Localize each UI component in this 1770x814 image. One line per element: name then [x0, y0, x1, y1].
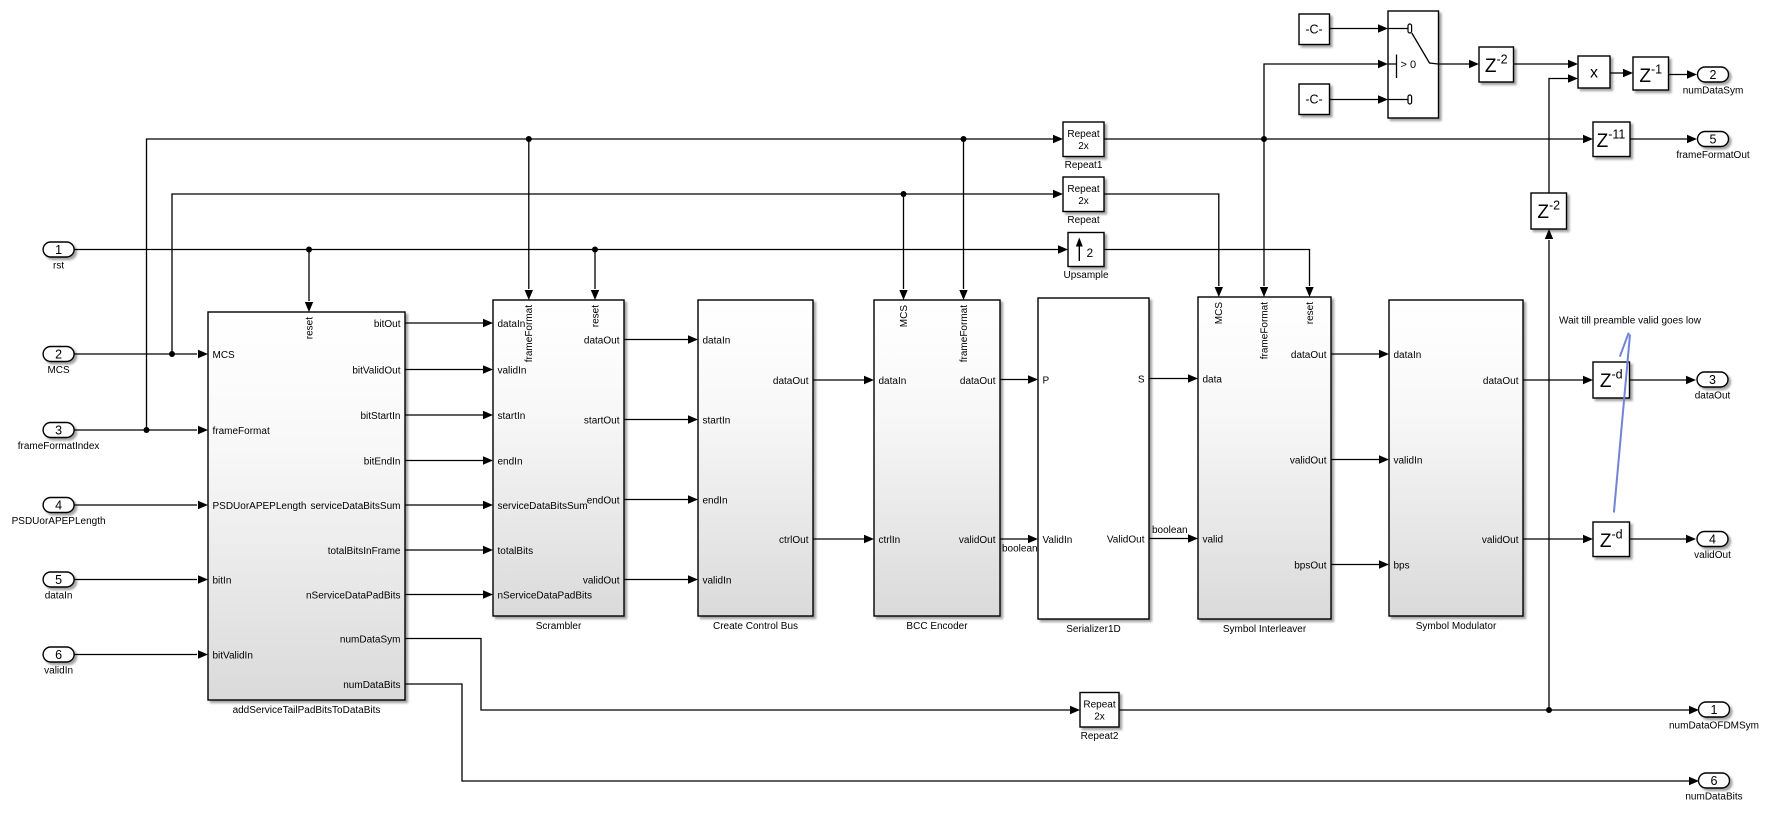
block Repeat — [1063, 177, 1104, 226]
outport 6 numDataBits — [1685, 773, 1742, 803]
svg-text:nServiceDataPadBits: nServiceDataPadBits — [306, 590, 401, 601]
svg-text:dataIn: dataIn — [1394, 350, 1422, 361]
svg-text:Wait till preamble valid goes: Wait till preamble valid goes low — [1559, 316, 1702, 327]
svg-text:Scrambler: Scrambler — [536, 621, 582, 632]
svg-text:MCS: MCS — [899, 305, 910, 328]
subsystem BCC Encoder — [874, 300, 1000, 632]
node numDataOFDMSym branch up to Delay Z-2 — [1546, 707, 1552, 713]
svg-text:dataOut: dataOut — [1483, 376, 1519, 387]
svg-text:bpsOut: bpsOut — [1294, 560, 1326, 571]
annotation: Wait till preamble valid goes low — [1559, 316, 1702, 513]
wire MCS down to BCC Encoder MCS port — [903, 194, 905, 289]
inport 3 frameFormatIndex — [18, 423, 100, 453]
wire Symbol Interleaver validOut to Symbol Modulator validIn — [1331, 459, 1379, 461]
wire addService to Scrambler bitValidOut-validIn — [405, 369, 483, 371]
wire addService to Scrambler bitOut-dataIn — [405, 322, 483, 324]
svg-text:dataOut: dataOut — [1291, 350, 1327, 361]
svg-text:S: S — [1138, 374, 1145, 385]
wire Delay Z-1 output to Outport 2 numDataSym — [1668, 74, 1687, 76]
svg-text:boolean: boolean — [1002, 544, 1038, 555]
svg-text:PSDUorAPEPLength: PSDUorAPEPLength — [213, 501, 307, 512]
svg-text:Z: Z — [1485, 56, 1497, 77]
svg-text:bitValidOut: bitValidOut — [352, 365, 400, 376]
wire addService numDataSym to Repeat2 input — [405, 639, 1070, 711]
outport 1 numDataOFDMSym — [1669, 702, 1759, 732]
svg-text:numDataOFDMSym: numDataOFDMSym — [1669, 721, 1759, 732]
wire Delay Z-d output to Outport 3 dataOut — [1629, 379, 1686, 381]
svg-text:boolean: boolean — [1152, 525, 1188, 536]
switch block (> 0) — [1388, 11, 1439, 118]
svg-text:2x: 2x — [1078, 141, 1089, 152]
wire BCC Encoder validOut to Serializer1D ValidIn (boolean) — [1000, 538, 1028, 540]
constant -C- (lower) — [1299, 84, 1330, 115]
inport 4 PSDUorAPEPLength — [12, 498, 106, 528]
svg-text:2x: 2x — [1078, 196, 1089, 207]
wire Delay Z-2 output to Product first input — [1513, 63, 1568, 65]
delay Z^-d (validOut path) — [1593, 522, 1630, 557]
svg-text:validOut: validOut — [1290, 455, 1327, 466]
svg-text:-d: -d — [1611, 528, 1622, 542]
delay Z^-2 (vertical, feeds product) — [1531, 193, 1567, 229]
svg-text:dataOut: dataOut — [960, 376, 996, 387]
wire Symbol Modulator validOut to Delay Z-d 2 — [1523, 538, 1583, 540]
svg-text:frameFormat: frameFormat — [213, 426, 270, 437]
block Repeat1 — [1063, 122, 1104, 171]
svg-text:serviceDataBitsSum: serviceDataBitsSum — [498, 501, 588, 512]
wire Constant -C- to Switch input 1 — [1329, 28, 1378, 30]
outport 5 frameFormatOut — [1676, 132, 1750, 162]
wire Scrambler to Create Control Bus endOut-endIn — [624, 499, 688, 501]
svg-text:> 0: > 0 — [1401, 59, 1417, 71]
delay Z^-1 — [1633, 57, 1669, 90]
svg-text:dataOut: dataOut — [1695, 391, 1731, 402]
outport 2 numDataSym — [1683, 67, 1744, 97]
wire BCC Encoder dataOut to Serializer1D P input — [1000, 379, 1028, 381]
wire addService to Scrambler bitEndIn-endIn — [405, 460, 483, 462]
outport 4 validOut — [1694, 532, 1731, 562]
svg-text:serviceDataBitsSum: serviceDataBitsSum — [310, 501, 400, 512]
svg-text:ValidOut: ValidOut — [1107, 534, 1145, 545]
svg-text:-d: -d — [1611, 368, 1622, 382]
wire frameFormatIndex: Inport 3 to addService frameFormat input — [75, 429, 198, 431]
svg-text:5: 5 — [1710, 132, 1717, 146]
outport 3 dataOut — [1695, 372, 1731, 402]
svg-text:Repeat1: Repeat1 — [1065, 160, 1103, 171]
wire Upsample output to Symbol Interleaver reset — [1104, 250, 1310, 287]
svg-text:nServiceDataPadBits: nServiceDataPadBits — [498, 590, 593, 601]
svg-text:Symbol Interleaver: Symbol Interleaver — [1223, 624, 1307, 635]
svg-text:MCS: MCS — [1214, 302, 1225, 325]
wire addService to Scrambler serviceDataBitsSum — [405, 504, 483, 506]
svg-text:validOut: validOut — [583, 575, 620, 586]
wire MCS: Inport 2 to addService MCS input — [75, 353, 198, 355]
svg-text:2: 2 — [55, 347, 62, 361]
svg-text:3: 3 — [1709, 373, 1716, 387]
svg-text:BCC Encoder: BCC Encoder — [906, 621, 968, 632]
wire frameFormat up to Switch control input — [1264, 64, 1378, 139]
svg-text:1: 1 — [1711, 703, 1718, 717]
wire Switch output to Delay Z-2 (top) — [1438, 63, 1469, 65]
inport 2 MCS — [43, 347, 74, 377]
wire rst: Inport 1 to Upsample input — [75, 249, 1064, 251]
wire Repeat2 output to Outport 1 numDataOFDMSym — [1119, 709, 1689, 711]
svg-text:bitStartIn: bitStartIn — [360, 411, 400, 422]
svg-text:2x: 2x — [1094, 712, 1105, 723]
svg-text:1: 1 — [55, 243, 62, 257]
node MCS branch — [169, 351, 175, 357]
block Repeat2 — [1080, 693, 1119, 743]
svg-text:-2: -2 — [1549, 199, 1560, 213]
svg-text:addServiceTailPadBitsToDataBit: addServiceTailPadBitsToDataBits — [233, 705, 381, 716]
svg-text:dataIn: dataIn — [498, 319, 526, 330]
svg-text:endIn: endIn — [498, 456, 523, 467]
svg-text:-2: -2 — [1496, 53, 1507, 67]
svg-text:reset: reset — [304, 317, 315, 339]
wire addService numDataBits to Outport 6 — [405, 684, 1689, 781]
wire Delay Z-11 output to Outport 5 — [1630, 138, 1687, 140]
svg-text:dataIn: dataIn — [703, 335, 731, 346]
svg-text:4: 4 — [1709, 532, 1716, 546]
svg-text:endIn: endIn — [703, 495, 728, 506]
svg-text:Serializer1D: Serializer1D — [1066, 624, 1120, 635]
svg-text:validOut: validOut — [959, 535, 996, 546]
svg-text:validIn: validIn — [1394, 455, 1423, 466]
wire Repeat1 output to Delay Z-11 input — [1104, 138, 1583, 140]
svg-text:Symbol Modulator: Symbol Modulator — [1416, 621, 1497, 632]
subsystem Symbol Modulator — [1389, 300, 1523, 632]
svg-text:dataOut: dataOut — [584, 335, 620, 346]
svg-text:MCS: MCS — [47, 365, 70, 376]
svg-text:startIn: startIn — [703, 415, 731, 426]
node MCS branch to BCC Encoder — [901, 191, 907, 197]
svg-text:startIn: startIn — [498, 411, 526, 422]
wire Serializer1D S to Symbol Interleaver data — [1149, 378, 1188, 380]
svg-text:endOut: endOut — [587, 495, 620, 506]
svg-text:frameFormat: frameFormat — [959, 305, 970, 362]
wire addService to Scrambler bitStartIn-startIn — [405, 414, 483, 416]
svg-text:frameFormatOut: frameFormatOut — [1676, 150, 1750, 161]
node rst branch to Scrambler reset — [592, 247, 598, 253]
wire Scrambler to Create Control Bus dataOut-dataIn — [624, 339, 688, 341]
svg-text:2: 2 — [1087, 246, 1094, 260]
svg-text:reset: reset — [590, 305, 601, 327]
svg-text:PSDUorAPEPLength: PSDUorAPEPLength — [12, 516, 106, 527]
wire validIn: Inport 6 to addService bitValidIn — [75, 654, 198, 656]
svg-text:dataOut: dataOut — [773, 376, 809, 387]
svg-text:Upsample: Upsample — [1063, 270, 1108, 281]
wire vertical Delay Z-2 output up to Product second input — [1549, 79, 1568, 194]
wire frameFormat down to Symbol Interleaver frameFormat port — [1263, 139, 1265, 286]
svg-text:Create Control Bus: Create Control Bus — [713, 621, 798, 632]
svg-text:validIn: validIn — [498, 365, 527, 376]
wire Delay Z-d 2 output to Outport 4 validOut — [1629, 538, 1686, 540]
svg-text:rst: rst — [53, 261, 64, 272]
svg-text:dataIn: dataIn — [879, 376, 907, 387]
svg-text:-11: -11 — [1608, 128, 1625, 142]
wire Scrambler to Create Control Bus startOut-startIn — [624, 419, 688, 421]
wire Repeat output to Symbol Interleaver MCS port — [1104, 194, 1219, 286]
svg-text:6: 6 — [1711, 774, 1718, 788]
svg-text:bitOut: bitOut — [374, 319, 401, 330]
svg-text:data: data — [1203, 374, 1223, 385]
svg-text:4: 4 — [55, 498, 62, 512]
constant -C- (upper) — [1299, 14, 1330, 45]
node rst branch to addServiceTailPadBitsToDataBits reset — [306, 247, 312, 253]
svg-text:startOut: startOut — [584, 415, 620, 426]
subsystem Serializer1D — [1038, 298, 1149, 635]
subsystem Create Control Bus — [698, 300, 813, 632]
wire Serializer1D ValidOut to Symbol Interleaver valid (boolean) — [1149, 538, 1188, 540]
inport 1 rst — [43, 242, 74, 272]
wire Symbol Interleaver bpsOut to Symbol Modulator bps — [1331, 564, 1379, 566]
svg-text:Z: Z — [1597, 131, 1609, 152]
svg-text:totalBits: totalBits — [498, 546, 534, 557]
svg-text:frameFormat: frameFormat — [1259, 302, 1270, 359]
svg-text:Repeat: Repeat — [1083, 700, 1115, 711]
svg-text:numDataSym: numDataSym — [1683, 86, 1744, 97]
svg-text:numDataBits: numDataBits — [1685, 792, 1742, 803]
wire Symbol Modulator dataOut to Delay Z-d — [1523, 379, 1583, 381]
block Upsample — [1063, 233, 1108, 282]
svg-text:Z: Z — [1600, 531, 1612, 552]
delay Z^-d (dataOut path) — [1593, 362, 1630, 398]
svg-text:bps: bps — [1394, 560, 1410, 571]
svg-text:-C-: -C- — [1305, 92, 1322, 106]
svg-text:3: 3 — [55, 423, 62, 437]
wire addService to Scrambler totalBitsInFrame-totalBits — [405, 549, 483, 551]
svg-text:bitValidIn: bitValidIn — [213, 650, 253, 661]
delay Z^-2 (after switch) — [1479, 47, 1514, 82]
svg-text:totalBitsInFrame: totalBitsInFrame — [328, 546, 401, 557]
svg-text:P: P — [1043, 375, 1050, 386]
wire frameFormat down to Scrambler frameFormat port — [528, 139, 530, 289]
svg-text:6: 6 — [55, 648, 62, 662]
wire Create Control Bus ctrlOut to BCC Encoder ctrlIn — [813, 538, 864, 540]
svg-text:x: x — [1590, 65, 1598, 82]
svg-text:ValidIn: ValidIn — [1043, 535, 1073, 546]
svg-text:numDataBits: numDataBits — [343, 680, 400, 691]
wire Scrambler to Create Control Bus validOut-validIn — [624, 579, 688, 581]
product block x — [1578, 56, 1610, 88]
svg-text:Z: Z — [1600, 371, 1612, 392]
svg-text:validOut: validOut — [1482, 535, 1519, 546]
svg-text:MCS: MCS — [213, 350, 236, 361]
inport 5 dataIn — [43, 572, 74, 602]
wire dataIn: Inport 5 to addService bitIn — [75, 579, 198, 581]
wire rst down to addService reset port — [308, 250, 310, 302]
wire MCS up and right to Repeat input — [172, 194, 1053, 354]
svg-text:-C-: -C- — [1305, 22, 1322, 36]
svg-text:5: 5 — [55, 573, 62, 587]
subsystem Symbol Interleaver — [1198, 297, 1331, 635]
svg-text:2: 2 — [1710, 68, 1717, 82]
svg-text:Repeat: Repeat — [1067, 184, 1099, 195]
svg-text:-1: -1 — [1651, 63, 1662, 77]
svg-text:bitIn: bitIn — [213, 575, 232, 586]
svg-text:numDataSym: numDataSym — [340, 634, 401, 645]
node frameFormat branch to Scrambler — [526, 136, 532, 142]
svg-text:frameFormat: frameFormat — [524, 305, 535, 362]
svg-text:Z: Z — [1639, 66, 1651, 87]
svg-text:validIn: validIn — [703, 575, 732, 586]
svg-text:reset: reset — [1305, 302, 1316, 324]
wire Symbol Interleaver dataOut to Symbol Modulator dataIn — [1331, 353, 1379, 355]
wire frameFormat down to BCC Encoder frameFormat port — [963, 139, 965, 289]
wire frameFormat up and right to Repeat1 input — [147, 139, 1054, 430]
subsystem addServiceTailPadBitsToDataBits — [208, 312, 405, 716]
svg-text:bitEndIn: bitEndIn — [364, 456, 401, 467]
wire Constant1 -C- to Switch input 3 — [1329, 99, 1378, 101]
subsystem Scrambler — [493, 300, 624, 632]
inport 6 validIn — [43, 647, 74, 677]
wire Product output to Delay Z-1 — [1610, 72, 1623, 74]
svg-text:valid: valid — [1203, 534, 1224, 545]
svg-text:ctrlOut: ctrlOut — [779, 535, 809, 546]
wire addService to Scrambler nServiceDataPadBits — [405, 594, 483, 596]
node frameFormat branch — [144, 427, 150, 433]
svg-text:ctrlIn: ctrlIn — [879, 535, 901, 546]
wire Create Control Bus dataOut to BCC Encoder dataIn — [813, 379, 864, 381]
svg-text:dataIn: dataIn — [45, 591, 73, 602]
node frameFormat branch to BCC Encoder — [961, 136, 967, 142]
svg-text:Repeat: Repeat — [1067, 129, 1099, 140]
svg-text:Repeat: Repeat — [1067, 215, 1099, 226]
svg-text:validIn: validIn — [44, 666, 73, 677]
node frameFormat branch to Switch and Symbol Interleaver — [1261, 136, 1267, 142]
wire numDataOFDMSym up into vertical Delay Z-2 — [1548, 240, 1550, 710]
delay Z^-11 — [1593, 122, 1630, 157]
wire rst down to Scrambler reset port — [594, 250, 596, 290]
svg-text:validOut: validOut — [1694, 550, 1731, 561]
svg-text:Z: Z — [1537, 202, 1549, 223]
svg-text:frameFormatIndex: frameFormatIndex — [18, 441, 100, 452]
svg-text:Repeat2: Repeat2 — [1081, 731, 1119, 742]
wire PSDUorAPEPLength: Inport 4 to addService — [75, 504, 198, 506]
